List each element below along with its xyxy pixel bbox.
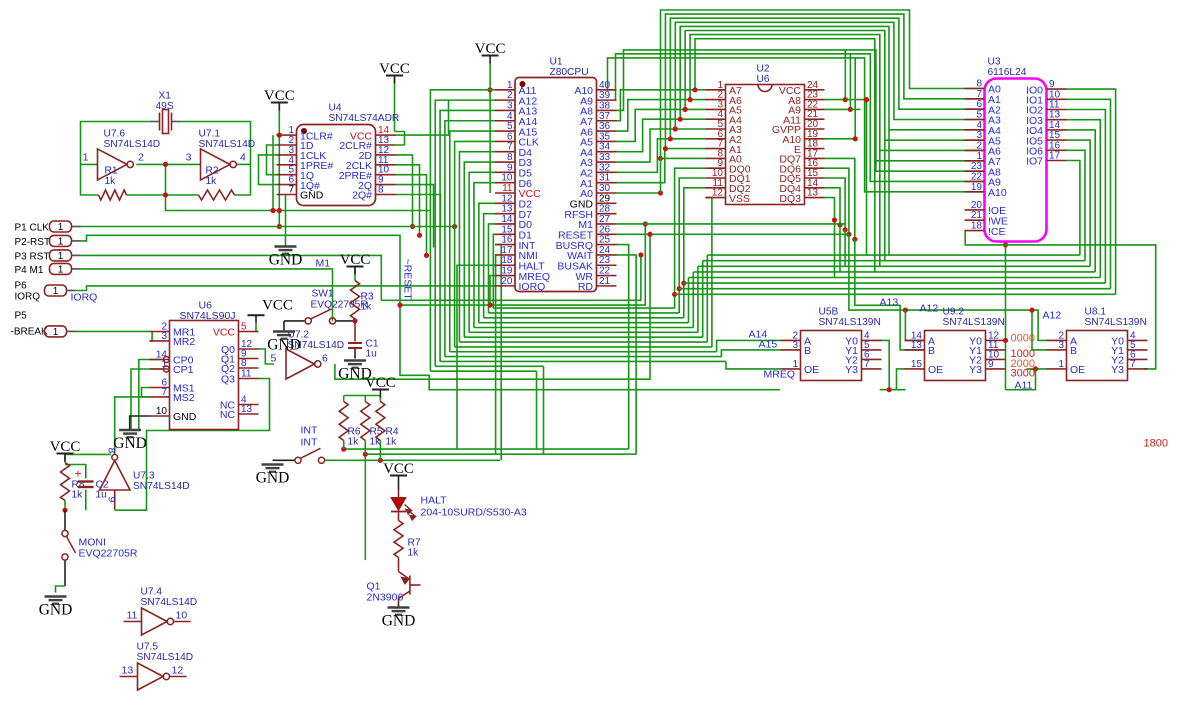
svg-text:1k: 1k (386, 437, 398, 448)
wire a12 line (849, 234, 1047, 340)
junction p12 p1 (410, 224, 415, 229)
svg-text:IORQ: IORQ (71, 292, 98, 304)
svg-text:U9.2: U9.2 (943, 307, 965, 318)
svg-text:1u: 1u (96, 490, 107, 501)
svg-text:X1: X1 (159, 91, 172, 102)
wire io left leg 706.8 (706, 255, 708, 342)
svg-text:8: 8 (241, 358, 247, 369)
wire io6 row (703, 260, 1085, 262)
wire a1 elbow (617, 149, 706, 183)
junction p3 rfsh (638, 252, 643, 257)
wire r1-r2 link (127, 194, 199, 196)
wire u3 io0 loop (1067, 89, 1116, 294)
power VCC led (390, 475, 407, 477)
wire u6 ms tie (142, 388, 150, 397)
resistor R5 (361, 402, 370, 441)
wire u1 pin10 to bus (474, 183, 495, 328)
ground sw1 (273, 332, 295, 339)
svg-text:RD: RD (578, 281, 594, 293)
power VCC u1 (482, 55, 499, 57)
svg-text:1u: 1u (366, 349, 377, 360)
junction ce riser (1003, 242, 1008, 247)
svg-text:15: 15 (911, 359, 923, 370)
svg-text:5: 5 (241, 322, 247, 333)
junction dq13 (832, 217, 837, 222)
svg-text:OE: OE (1070, 364, 1085, 376)
resistor R1 (99, 190, 127, 200)
wire u6 gnd wire (130, 416, 150, 430)
wire u6 cp0 loop (139, 360, 163, 430)
svg-text:A15: A15 (759, 339, 778, 351)
wire u1 pin9 to bus (469, 172, 495, 332)
wire r5 top (364, 396, 366, 402)
svg-text:IORQ: IORQ (15, 292, 41, 303)
svg-text:Y3: Y3 (845, 364, 858, 376)
junction u4 rail2 (270, 208, 275, 213)
svg-text:13: 13 (122, 665, 134, 677)
junction dq17 (852, 237, 857, 242)
wire bus row p3 (381, 255, 641, 300)
wire a4 elbow (617, 119, 706, 152)
svg-text:-BREAK: -BREAK (11, 327, 49, 338)
wire u1 pin17 nmi (494, 255, 497, 454)
wire arc a2 (670, 18, 984, 139)
svg-text:Y3: Y3 (1111, 364, 1124, 376)
wire bus row 356.09999999999997 (445, 356, 721, 358)
wire u1 pin8 to bus (464, 162, 495, 337)
svg-text:VCC: VCC (365, 375, 396, 391)
wire osc input (81, 163, 98, 165)
svg-text:3: 3 (1058, 340, 1064, 351)
resistor R2 (199, 190, 235, 200)
svg-text:Y3: Y3 (969, 364, 982, 376)
svg-text:SN74LS139N: SN74LS139N (819, 317, 881, 328)
wire io left leg 702.2 (702, 261, 704, 338)
junction io 683.3 (681, 281, 686, 286)
junction r6 (341, 447, 346, 452)
IC U8.1 (1067, 331, 1128, 381)
junction y0 seg (887, 387, 892, 392)
svg-text:1k: 1k (408, 548, 420, 559)
power VCC u4 (271, 102, 288, 104)
svg-text:!CE: !CE (988, 226, 1006, 238)
svg-text:13: 13 (911, 340, 923, 351)
svg-text:13: 13 (241, 404, 253, 415)
svg-text:SN74LS14D: SN74LS14D (104, 139, 161, 150)
junction dq16 (846, 232, 851, 237)
wire vcc to u7.3 out (65, 453, 111, 455)
power VCC r8 (57, 453, 74, 455)
svg-text:7: 7 (1130, 359, 1136, 370)
wire u4 pin1 join (277, 134, 280, 136)
wire moni gnd elbow (56, 586, 66, 593)
wire p2 rst (81, 235, 781, 389)
wire pullup tops (344, 395, 381, 397)
svg-text:R2: R2 (206, 166, 219, 177)
pin 10 stub (174, 621, 191, 623)
wire u9 oe riser (897, 369, 905, 390)
svg-text:7: 7 (864, 359, 870, 370)
wire vcc u1 drop (489, 63, 491, 194)
wire io left leg 692.8 (692, 272, 694, 328)
IC U9.2 (925, 331, 986, 381)
junction io 678.7 (677, 286, 682, 291)
inverter U7.6 (98, 149, 127, 180)
svg-text:11: 11 (127, 610, 138, 622)
pin 13 stub (120, 676, 138, 678)
wire io left leg 688.0 (688, 278, 690, 323)
wire ms2 to u7.3 (115, 397, 150, 454)
wire a11 seg (1006, 369, 1036, 390)
junction u2 a8 (843, 97, 848, 102)
wire led to r7 (398, 513, 400, 521)
inverter U7.4 (142, 608, 168, 635)
svg-text:VCC: VCC (264, 88, 295, 104)
wire u4 p2 elbow (267, 145, 277, 175)
IC U6 SN74LS90J (170, 321, 239, 430)
wire c1 to gnd (354, 349, 356, 359)
wire leg ext a4 (888, 130, 890, 255)
junction osc bottom (163, 192, 168, 197)
svg-text:1: 1 (58, 251, 64, 262)
wire u4 p8 drop (396, 195, 441, 227)
wire u4 gnd drop (285, 195, 287, 247)
wire a13 line (855, 239, 925, 350)
junction a0b (658, 156, 663, 161)
wire r3 to c1 (354, 319, 356, 342)
svg-text:VSS: VSS (729, 193, 750, 205)
wire osc mid drop (165, 164, 167, 195)
wire d vertical 683.3 (684, 188, 706, 318)
svg-text:MR2: MR2 (173, 336, 195, 348)
svg-text:U1: U1 (550, 57, 563, 68)
svg-text:10: 10 (156, 406, 168, 417)
svg-text:U4: U4 (329, 103, 342, 114)
wire io left leg 697.4 (697, 266, 699, 332)
wire mid drop 536 (536, 371, 538, 449)
svg-text:A12: A12 (920, 303, 939, 315)
wire u1 pin2 to bus (435, 100, 495, 366)
svg-text:7: 7 (161, 387, 167, 398)
inverter U7.2 (286, 349, 315, 379)
wire u4 p14 vcc (396, 101, 449, 136)
svg-text:VCC: VCC (340, 252, 371, 268)
wire u2 a8 down (866, 100, 868, 256)
wire bus row 360.95 (440, 360, 726, 362)
wire osc to clk rail (166, 195, 430, 211)
svg-text:3: 3 (792, 340, 798, 351)
wire bus row 346.4 (455, 346, 712, 348)
wire vss vertical (706, 198, 712, 347)
wire u1 pin3 to bus (440, 110, 495, 361)
junction io 674.1 (672, 292, 677, 297)
svg-text:A10: A10 (988, 187, 1007, 199)
svg-text:GND: GND (256, 470, 290, 487)
wire vcc to led (398, 484, 400, 490)
svg-text:6116L24: 6116L24 (988, 67, 1027, 78)
svg-text:204-10SURD/S530-A3: 204-10SURD/S530-A3 (421, 507, 527, 519)
svg-text:6: 6 (322, 353, 328, 365)
svg-text:P3 RST: P3 RST (15, 251, 50, 262)
wire u2 a9 riser (825, 54, 851, 110)
wire arc a7 (695, 39, 984, 161)
svg-text:18: 18 (971, 221, 983, 232)
wire u1 pin6 to bus (455, 141, 495, 347)
wire a8 net (617, 50, 985, 171)
svg-text:A11: A11 (1015, 380, 1033, 392)
wire bus row 312.45 (488, 312, 679, 314)
wire leg ext a7 (874, 161, 876, 272)
wire u4 p3 elbow (259, 155, 277, 185)
wire u1 pin4 to bus (445, 121, 495, 357)
svg-text:B: B (1070, 345, 1077, 357)
junction a12 (903, 308, 908, 313)
capacitor C1 (348, 342, 362, 344)
svg-text:+: + (75, 467, 82, 481)
wire a0 elbow (617, 192, 661, 194)
svg-text:20: 20 (501, 276, 513, 287)
wire dq14 drop (825, 188, 841, 225)
svg-text:P5: P5 (15, 311, 28, 322)
svg-text:VCC: VCC (383, 461, 414, 477)
wire u3 io3 loop (1067, 120, 1101, 278)
wire io1 row (679, 288, 1110, 290)
wire io3 row (689, 277, 1101, 279)
svg-text:A13: A13 (880, 297, 899, 309)
wire y0 ce riser (1005, 245, 1007, 390)
svg-text:VCC: VCC (50, 439, 81, 455)
svg-text:2: 2 (138, 152, 144, 164)
svg-text:1k: 1k (72, 490, 84, 501)
svg-text:0000: 0000 (1011, 333, 1035, 345)
wire bus row 331.84999999999997 (469, 331, 698, 333)
svg-text:VCC: VCC (213, 327, 236, 339)
svg-text:1: 1 (53, 327, 59, 338)
svg-text:GND: GND (39, 602, 73, 619)
junction p1 clk riser (452, 224, 457, 229)
junction r8 node (62, 508, 67, 513)
svg-text:SN74LS14D: SN74LS14D (141, 597, 198, 608)
wire u3 io2 loop (1067, 110, 1106, 284)
wire r6 bottom (343, 441, 345, 450)
junction r4 int (378, 458, 383, 463)
wire r2 to right (235, 164, 251, 195)
crystal X1 (151, 110, 181, 134)
svg-text:GND: GND (173, 411, 197, 423)
inversion bubble CP0 (163, 357, 169, 363)
wire decoder jog 716.1 (717, 340, 781, 351)
svg-text:SN74LS14D: SN74LS14D (137, 652, 194, 663)
junction arc a6 (687, 97, 692, 102)
wire arc a1 (665, 14, 984, 149)
svg-text:HALT: HALT (421, 495, 448, 507)
wire u1 pin18 halt (457, 265, 495, 449)
wire u9 y3 out (1027, 368, 1047, 370)
wire a9 net (616, 54, 985, 182)
inverter U7.3 (100, 461, 131, 491)
svg-text:CP1: CP1 (173, 364, 194, 376)
svg-text:GND: GND (300, 190, 324, 202)
wire y0 to u9 oe seg (880, 389, 906, 391)
svg-text:GND: GND (267, 337, 301, 354)
wire a10 net (608, 58, 985, 192)
svg-text:1k: 1k (361, 302, 373, 313)
connector P6 IORQ (45, 285, 67, 296)
wire u1 pin15 to bus (493, 234, 495, 308)
ground int (262, 465, 284, 472)
svg-text:EVQ22705R: EVQ22705R (79, 548, 138, 560)
svg-text:1: 1 (83, 152, 89, 164)
wire a12 u9 riser (905, 310, 924, 340)
wire u4 p12 drop (396, 155, 413, 227)
wire dq14 jog (839, 225, 841, 272)
junction arc a4 (678, 117, 683, 122)
wire decoder jog 720.9 (721, 350, 780, 357)
IC U5B (801, 331, 862, 381)
svg-text:R1: R1 (105, 166, 118, 177)
wire u2 a8 riser (825, 50, 846, 100)
junction y0 ce (1003, 338, 1008, 343)
wire dq16 drop (825, 168, 849, 234)
wire p3 rst (81, 255, 382, 300)
svg-text:5: 5 (271, 353, 277, 365)
wire vcc rail u4 (278, 104, 280, 227)
wire u2 a9 stub ext (850, 108, 860, 110)
junction dq15 (843, 227, 848, 232)
svg-text:19: 19 (971, 182, 983, 193)
svg-text:U3: U3 (988, 57, 1001, 68)
svg-text:8: 8 (106, 448, 118, 454)
wire a3 elbow (617, 129, 706, 162)
svg-text:U7.3: U7.3 (133, 471, 155, 482)
wire bus row 341.54999999999995 (459, 341, 707, 343)
wire io5 row (698, 265, 1090, 267)
junction arc a5 (683, 107, 688, 112)
wire u4 rail2 (272, 135, 274, 210)
resistor R8 (61, 463, 70, 501)
wire wait drop (617, 255, 637, 454)
wire decoder jog oe (726, 361, 781, 368)
wire ce net (965, 230, 1155, 369)
svg-text:SN74LS14D: SN74LS14D (199, 139, 256, 150)
ground moni (45, 597, 67, 604)
svg-text:INT: INT (301, 437, 319, 449)
svg-text:1: 1 (1058, 359, 1064, 370)
wire to moni (64, 510, 66, 531)
junction y3 oe (1033, 366, 1038, 371)
svg-text:2N3906: 2N3906 (367, 592, 404, 604)
svg-text:SN74LS14D: SN74LS14D (133, 481, 190, 492)
wire bus row 307.59999999999997 (493, 307, 674, 309)
wire io7 row (707, 254, 1080, 256)
pin 12 stub (170, 676, 187, 678)
svg-text:8: 8 (378, 185, 384, 196)
wire c2 bottom (85, 490, 87, 511)
svg-text:~RESET: ~RESET (402, 259, 414, 301)
svg-text:A12: A12 (1043, 310, 1062, 322)
wire u1 pin16 int (495, 245, 501, 461)
IC U1 Z80CPU (515, 78, 597, 292)
svg-text:11: 11 (241, 369, 252, 380)
capacitor C2 (78, 480, 94, 482)
switch MONI (62, 530, 68, 536)
wire sw1 gnd stem (283, 321, 285, 332)
wire u4 p11 drop (396, 165, 420, 236)
junction vcc u1 (488, 87, 493, 92)
wire u5b y0 out (881, 340, 890, 389)
wire dq13 drop (825, 198, 835, 278)
wire p6 iorq (76, 286, 496, 291)
wire u6 q0 to u7.2 (259, 349, 275, 364)
wire u3 io7 loop (1067, 161, 1080, 256)
wire arc a5 (685, 31, 984, 141)
wire d vertical 674.1 (675, 168, 706, 308)
wire bus row 365.79999999999995 (435, 365, 543, 367)
wire r5 bottom (364, 441, 366, 455)
svg-text:MREQ: MREQ (764, 369, 796, 381)
junction osc mid (163, 162, 168, 167)
wire bus row 322.15 (479, 322, 689, 324)
svg-text:1: 1 (58, 237, 64, 248)
wire leg ext a5 (884, 140, 886, 261)
svg-text:U6: U6 (757, 74, 770, 85)
svg-text:SN74LS139N: SN74LS139N (1085, 317, 1147, 328)
junction u2 a9 (848, 107, 853, 112)
wire u3 io5 loop (1067, 140, 1091, 266)
svg-text:SN74LS74ADR: SN74LS74ADR (329, 113, 400, 124)
junction mreq p2row (487, 303, 492, 308)
svg-text:SN74LS139N: SN74LS139N (943, 317, 1005, 328)
inverter U7.1 (201, 149, 230, 180)
svg-text:7: 7 (288, 185, 294, 196)
wire vcc to r8 (64, 456, 66, 463)
ground c1 (344, 361, 366, 368)
wire u3 io6 loop (1067, 150, 1086, 260)
wire vcc left drop (394, 78, 396, 132)
wire vcc to r3 (354, 268, 356, 281)
junction arc a3 (673, 126, 678, 131)
wire u2 a8 stub ext (845, 99, 866, 101)
wire inv2 out (236, 163, 250, 165)
svg-text:SN74LS90J: SN74LS90J (180, 310, 236, 322)
power VCC u6 (248, 314, 265, 316)
wire osc loop top (81, 122, 151, 165)
wire bus row p2 (400, 224, 645, 305)
wire moni out (64, 560, 66, 586)
wire u4 p13 loop (395, 132, 405, 146)
svg-text:B: B (804, 345, 811, 357)
svg-text:INT: INT (301, 425, 319, 437)
wire arc a6 (690, 35, 984, 151)
wire u1 pin7 to bus (459, 152, 495, 342)
switch INT (295, 457, 301, 463)
svg-text:10: 10 (176, 610, 188, 622)
svg-text:1: 1 (161, 359, 167, 370)
LED HALT (391, 498, 406, 511)
resistor R7 (394, 521, 403, 558)
wire p4 m1 (81, 269, 333, 321)
junction p2 row (397, 303, 402, 308)
svg-text:M1: M1 (316, 258, 331, 270)
wire u6 q3 route (115, 379, 270, 511)
wire u3 io1 loop (1067, 99, 1111, 288)
wire io4 row (693, 271, 1095, 273)
wire bus row 327.0 (474, 327, 693, 329)
svg-text:1: 1 (53, 286, 59, 297)
wire u1 pin1 to bus (430, 90, 495, 371)
wire io2 row (684, 282, 1106, 284)
wire break mr2 elbow (150, 331, 153, 341)
